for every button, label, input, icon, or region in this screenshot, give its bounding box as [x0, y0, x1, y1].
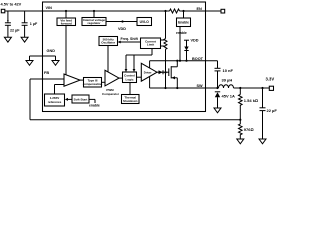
svg-text:4.5V to 42V: 4.5V to 42V [1, 1, 22, 6]
svg-text:Oscillator: Oscillator [101, 41, 116, 45]
svg-text:1.54 kΩ: 1.54 kΩ [244, 98, 258, 103]
svg-text:3.3V: 3.3V [266, 77, 275, 82]
svg-text:Soft-Start: Soft-Start [74, 98, 88, 102]
svg-text:EN: EN [197, 7, 203, 11]
svg-text:VIN: VIN [46, 6, 53, 10]
svg-text:SW: SW [197, 84, 204, 88]
svg-text:reference: reference [48, 100, 62, 104]
svg-text:1 µF: 1 µF [30, 22, 38, 26]
svg-text:Enable: Enable [178, 21, 189, 25]
svg-text:UVLO: UVLO [140, 20, 150, 24]
svg-text:976Ω: 976Ω [244, 127, 254, 132]
svg-text:BOOT: BOOT [192, 57, 204, 61]
svg-text:Comparator: Comparator [102, 92, 120, 96]
svg-text:compensation: compensation [83, 82, 103, 86]
svg-text:Freq. Shift: Freq. Shift [121, 37, 139, 41]
svg-text:+: + [7, 19, 9, 23]
svg-text:enable: enable [176, 31, 187, 35]
svg-text:VDD: VDD [191, 39, 199, 43]
svg-text:45V 1A: 45V 1A [222, 94, 235, 99]
svg-text:22 µF: 22 µF [267, 108, 278, 113]
svg-text:Limit: Limit [147, 43, 154, 47]
svg-text:GND: GND [47, 49, 56, 53]
svg-text:enable: enable [89, 103, 100, 107]
svg-text:Shutdown: Shutdown [123, 99, 138, 103]
svg-text:39 µH: 39 µH [222, 78, 233, 83]
svg-text:10 nF: 10 nF [223, 68, 234, 73]
svg-text:Driver: Driver [144, 70, 152, 74]
svg-text:22 µF: 22 µF [10, 28, 20, 32]
svg-text:FB: FB [44, 71, 49, 75]
svg-text:forward: forward [61, 22, 72, 26]
svg-text:Logic: Logic [126, 77, 134, 81]
svg-text:regulator: regulator [87, 21, 101, 25]
svg-text:VDD: VDD [118, 27, 126, 31]
